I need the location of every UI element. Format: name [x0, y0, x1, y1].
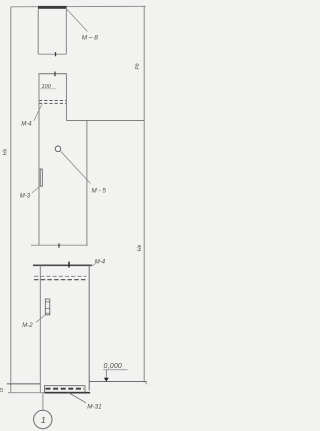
panel M-8 bottom edge [38, 53, 66, 55]
beam inner dashes [46, 388, 85, 390]
svg-text:М-4: М-4 [21, 122, 32, 128]
leader to M-5 [61, 151, 91, 183]
column top edge [39, 73, 67, 75]
svg-text:Нв: Нв [137, 244, 143, 251]
lower block left wall [39, 266, 41, 393]
bracket M-3 [40, 169, 42, 186]
crane rail level line [66, 119, 144, 121]
dashed joint row 1 [39, 100, 66, 102]
elevation triangle [104, 378, 109, 382]
dashed joint row 2 [39, 102, 66, 104]
right border wall line [143, 6, 145, 381]
svg-text:Рд: Рд [135, 63, 141, 69]
panel M-8 top thick bar [38, 6, 67, 9]
column narrow right edge [65, 74, 67, 121]
ladder detail M-2 [45, 299, 50, 315]
leader to M-4 upper [34, 104, 42, 121]
axis bubble [34, 410, 52, 428]
svg-text:М-3: М-3 [20, 194, 31, 200]
tick at lower block top [68, 262, 70, 268]
panel M-8 right edge [65, 9, 67, 55]
axis stem [42, 393, 44, 410]
top border line [11, 5, 146, 8]
dashed bed row 2 [34, 279, 87, 281]
leader to M-4 lower [92, 264, 96, 267]
foundation beam M-31 outline [44, 386, 85, 393]
svg-text:М-4: М-4 [95, 260, 106, 266]
column bottom line [31, 244, 88, 246]
svg-text:1: 1 [41, 415, 46, 425]
column wide right edge [86, 120, 88, 245]
tick at panel M-8 bottom [55, 52, 57, 56]
svg-text:М – 8: М – 8 [82, 34, 98, 41]
elevation stem [105, 370, 107, 378]
leader to M-31 [69, 393, 87, 403]
svg-text:0,000: 0,000 [104, 363, 123, 370]
slope tick at right corner [144, 382, 147, 385]
ground line right [89, 381, 147, 383]
leader to M-3 [32, 186, 40, 193]
node circle M-5 [55, 146, 61, 152]
panel M-8 left edge [37, 9, 39, 55]
svg-text:10: 10 [0, 387, 4, 392]
left axis wall line [10, 7, 12, 393]
tick at column top [54, 72, 56, 77]
svg-text:М - 5: М - 5 [92, 188, 107, 195]
svg-text:М-2: М-2 [22, 323, 33, 329]
lower block right wall [88, 266, 90, 391]
svg-text:М-31: М-31 [87, 403, 101, 410]
foundation bottom line faint [8, 392, 44, 394]
column left edge [38, 74, 40, 246]
leader to M-8 [67, 10, 88, 32]
ground line left [7, 383, 40, 385]
tick at column bottom [58, 243, 60, 247]
svg-text:Нв: Нв [3, 148, 9, 155]
elevation underline [103, 369, 128, 371]
lower block top edge [33, 264, 92, 266]
foundation bottom line dark [44, 392, 90, 394]
dimension line under 100 [40, 88, 56, 90]
leader to M-2 [36, 315, 46, 323]
dashed bed row 1 [34, 275, 87, 277]
